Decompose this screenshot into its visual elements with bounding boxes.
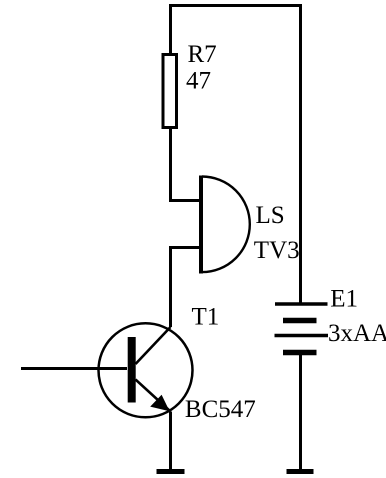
wire R7 bottom lead to LS top terminal: [171, 127, 202, 201]
svg-text:3xAA: 3xAA: [328, 320, 386, 347]
wire T1 emitter to ground: [169, 412, 172, 471]
transistor T1 emitter stroke: [136, 380, 171, 412]
battery E1 negative plate (cell 1): [283, 318, 317, 324]
ground at emitter: [157, 469, 185, 474]
svg-text:R7: R7: [188, 41, 217, 68]
loudspeaker LS: [201, 176, 250, 274]
ground at battery minus: [287, 469, 314, 474]
transistor T1 emitter arrowhead: [150, 395, 169, 412]
transistor T1 body circle: [99, 323, 193, 417]
wire R7 top lead: [169, 4, 172, 55]
battery E1 positive plate (cell 2): [275, 334, 329, 338]
wire T1 base lead: [21, 367, 127, 370]
wire battery negative to ground: [299, 353, 302, 471]
resistor R7: [163, 55, 177, 128]
svg-text:E1: E1: [330, 286, 358, 313]
svg-text:47: 47: [186, 68, 211, 95]
transistor T1: [99, 323, 193, 417]
wire LS bottom terminal to T1 collector: [171, 248, 202, 328]
transistor T1 base bar: [128, 337, 136, 403]
svg-text:TV3: TV3: [254, 237, 300, 264]
svg-text:T1: T1: [192, 304, 220, 331]
loudspeaker LS dome arc: [202, 176, 250, 272]
battery E1 positive plate (cell 1): [275, 302, 328, 306]
loudspeaker LS flat edge: [199, 176, 203, 274]
svg-text:LS: LS: [256, 202, 285, 229]
battery E1 (3 cells): [275, 304, 329, 353]
wire top rail (R7 top to battery E1 plus): [169, 4, 302, 7]
battery E1 negative plate (cell 2): [283, 350, 317, 356]
svg-text:BC547: BC547: [185, 396, 256, 423]
transistor T1 collector stroke: [136, 327, 171, 364]
wire battery E1 positive lead: [299, 4, 302, 304]
